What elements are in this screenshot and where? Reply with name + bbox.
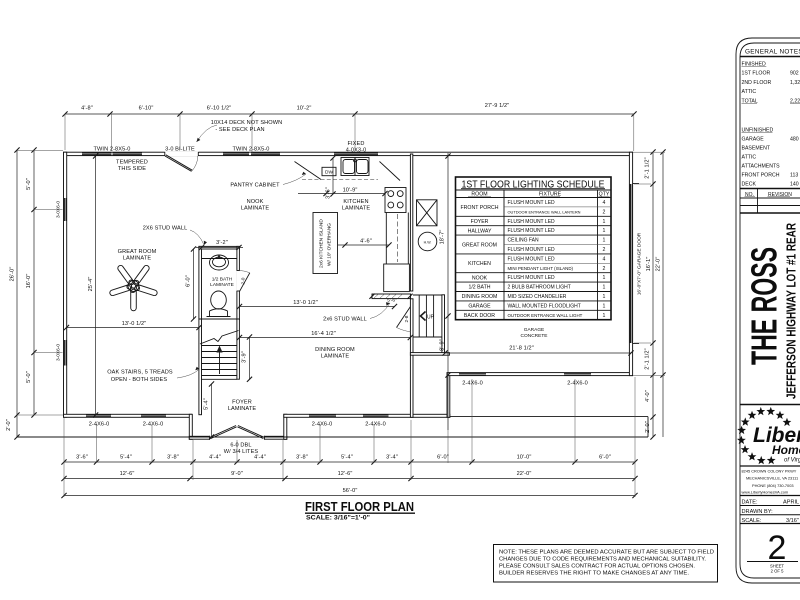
svg-text:3-0X6-0: 3-0X6-0 (56, 201, 62, 218)
svg-text:2'-0": 2'-0" (6, 419, 12, 431)
Liberty Homes logo: star ring (748, 411, 757, 419)
svg-text:2-4X6-0: 2-4X6-0 (365, 422, 386, 428)
svg-text:27'-9 1/2": 27'-9 1/2" (485, 103, 510, 109)
svg-text:22'-0": 22'-0" (656, 257, 662, 272)
svg-text:DATE:: DATE: (742, 500, 759, 506)
door: 2-8 door at basement stairs (397, 307, 411, 328)
window 2-4x6-0 great room front B (141, 414, 166, 417)
great room ceiling fan (130, 292, 137, 308)
svg-text:1: 1 (603, 294, 606, 300)
svg-text:4: 4 (603, 200, 606, 206)
svg-text:9'-0": 9'-0" (231, 471, 243, 477)
dim: kitchen 10-9 (298, 193, 385, 195)
svg-text:6'-0": 6'-0" (186, 275, 192, 287)
svg-text:BUILDER RESERVES THE RIGHT TO: BUILDER RESERVES THE RIGHT TO MAKE CHANG… (499, 571, 689, 577)
svg-text:56'-0": 56'-0" (343, 488, 358, 494)
svg-text:UP: UP (427, 314, 435, 320)
svg-text:140: 140 (790, 182, 799, 188)
svg-text:2'-1 1/2": 2'-1 1/2" (645, 348, 651, 369)
svg-text:2-8: 2-8 (404, 315, 410, 322)
svg-text:10X14 DECK NOT SHOWN: 10X14 DECK NOT SHOWN (211, 120, 283, 126)
svg-text:12'-6": 12'-6" (120, 471, 135, 477)
bottom dim row 1 (64, 461, 635, 463)
svg-text:4-0X3-0: 4-0X3-0 (346, 147, 367, 153)
dim: garage door segments vertical (652, 152, 654, 437)
step wall between dining and garage front (447, 373, 450, 417)
svg-text:5'-0": 5'-0" (26, 178, 32, 190)
svg-text:1: 1 (603, 285, 606, 291)
interior wall: basement-stair right wall (442, 295, 445, 355)
svg-text:JEFFERSON HIGHWAY LOT #1 REAR: JEFFERSON HIGHWAY LOT #1 REAR (785, 223, 799, 399)
dim: bath 6-0 vertical (193, 249, 195, 319)
svg-text:FOYER: FOYER (471, 219, 489, 225)
svg-text:3'-6": 3'-6" (326, 187, 332, 199)
window twin 2-8x5-0 second pair right unit (251, 152, 280, 155)
foyer bump-out left wall (189, 414, 192, 439)
svg-text:6'-0": 6'-0" (599, 455, 611, 461)
garage right wall (629, 152, 632, 375)
svg-text:1: 1 (603, 313, 606, 319)
svg-text:ATTACHMENTS: ATTACHMENTS (742, 164, 781, 170)
svg-text:PHONE (804) 730-7003: PHONE (804) 730-7003 (752, 483, 794, 488)
window 2-4x6-0 great room front A (86, 414, 111, 417)
svg-text:16'-1": 16'-1" (646, 257, 652, 272)
interior wall: dining right / foyer wall (410, 299, 413, 418)
svg-text:1: 1 (603, 275, 606, 281)
svg-text:CONCRETE: CONCRETE (521, 333, 548, 339)
svg-text:6-0 DBL: 6-0 DBL (230, 443, 251, 449)
upper cabinet dashed line (302, 179, 378, 181)
svg-text:HALLWAY: HALLWAY (468, 228, 492, 234)
outer wall: bottom-left front wall (64, 414, 192, 417)
kitchen sink double basin (341, 158, 369, 176)
svg-text:KITCHEN: KITCHEN (343, 199, 368, 205)
window 2-4x6-0 garage front A (459, 373, 486, 376)
dim: foyer 5-4 vertical (211, 384, 213, 437)
svg-text:H.W.: H.W. (424, 240, 432, 244)
svg-text:FLUSH MOUNT LED: FLUSH MOUNT LED (508, 219, 556, 225)
svg-text:MID SIZED CHANDELIER: MID SIZED CHANDELIER (508, 294, 567, 300)
svg-text:DRAWN BY:: DRAWN BY: (742, 509, 774, 515)
svg-text:SCALE: 3/16"=1'-0": SCALE: 3/16"=1'-0" (306, 516, 370, 522)
outer wall: top (back) wall (64, 152, 633, 155)
svg-text:1/2 BATH: 1/2 BATH (212, 277, 233, 283)
svg-text:18'-7": 18'-7" (440, 230, 446, 245)
interior wall: bath-stairs left wall (199, 246, 202, 414)
svg-text:OAK STAIRS, 5 TREADS: OAK STAIRS, 5 TREADS (107, 370, 173, 376)
door: half-bath 2-0 door leaf and arc (240, 273, 250, 292)
svg-text:5'-0": 5'-0" (26, 371, 32, 383)
dim: dining 16-4 1/2 (240, 337, 411, 339)
svg-text:2-4X6-0: 2-4X6-0 (89, 422, 110, 428)
svg-text:LAMINATE: LAMINATE (228, 406, 257, 412)
svg-text:2: 2 (603, 209, 606, 215)
svg-text:3-0X6-0: 3-0X6-0 (56, 344, 62, 361)
svg-text:113: 113 (790, 173, 798, 179)
note box (494, 545, 718, 583)
foyer bump-out right wall (284, 414, 287, 439)
svg-text:3-0 BI-LITE: 3-0 BI-LITE (165, 147, 195, 153)
svg-text:10'-0": 10'-0" (517, 455, 532, 461)
door: 3-0 bi-lite at rear wall (leaf and swing arc) (165, 152, 199, 156)
dim: garage overall 22-0 vertical (662, 152, 664, 437)
svg-text:1ST FLOOR: 1ST FLOOR (742, 71, 771, 77)
porch edge line right of dining (450, 416, 648, 418)
window fixed 4-0x3-0 over kitchen sink (334, 152, 378, 155)
svg-text:2-4X6-0: 2-4X6-0 (462, 381, 483, 387)
window 2-4x6-0 dining front B (363, 414, 389, 417)
svg-text:1,325: 1,325 (790, 80, 800, 86)
svg-text:TWIN 2-8X5-0: TWIN 2-8X5-0 (233, 147, 270, 153)
svg-text:4'-8": 4'-8" (81, 106, 93, 112)
interior wall: garage/kitchen wall (410, 154, 412, 291)
svg-text:16'-0": 16'-0" (26, 274, 32, 289)
dim: garage width 21-8 1/2 (445, 352, 631, 354)
svg-text:OUTDOOR ENTRANCE WALL LANTERN: OUTDOOR ENTRANCE WALL LANTERN (508, 209, 581, 214)
svg-text:DINING ROOM: DINING ROOM (462, 294, 498, 300)
bottom dim row 2 (64, 478, 635, 480)
svg-text:8245 CROWN COLONY PKWY: 8245 CROWN COLONY PKWY (742, 469, 797, 474)
outer wall: left wall (64, 152, 67, 417)
svg-text:FRONT PORCH: FRONT PORCH (742, 173, 780, 179)
svg-text:2 BULB BATHROOM LIGHT: 2 BULB BATHROOM LIGHT (508, 285, 571, 291)
svg-text:6'-10 1/2": 6'-10 1/2" (207, 106, 232, 112)
oak stairs treads (202, 345, 237, 347)
dim: kitchen 3-6 vertical (332, 158, 334, 194)
svg-text:2-4X6-0: 2-4X6-0 (567, 381, 588, 387)
svg-text:OUTDOOR ENTRANCE WALL LIGHT: OUTDOOR ENTRANCE WALL LIGHT (508, 313, 583, 318)
porch right end vertical (647, 417, 649, 437)
svg-text:2'-0": 2'-0" (645, 421, 651, 433)
svg-text:3'-8": 3'-8" (167, 455, 179, 461)
svg-text:NOTE: THESE PLANS ARE DEEMED A: NOTE: THESE PLANS ARE DEEMED ACCURATE BU… (499, 550, 714, 556)
svg-text:NOOK: NOOK (247, 199, 264, 205)
svg-text:PLEASE CONSULT SALES CONTRACT: PLEASE CONSULT SALES CONTRACT FOR ACTUAL… (499, 564, 695, 570)
svg-text:BASEMENT: BASEMENT (742, 146, 771, 152)
interior wall: half-bath right wall with door opening (237, 246, 240, 319)
svg-text:2x6 KITCHEN ISLAND: 2x6 KITCHEN ISLAND (319, 219, 325, 268)
svg-text:16'-4 1/2": 16'-4 1/2" (311, 331, 336, 337)
svg-text:FLUSH MOUNT LED: FLUSH MOUNT LED (508, 275, 556, 281)
window 3-0x6-0 left wall lower (64, 340, 67, 366)
svg-text:CHANGES DUE TO CODE REQUIREMEN: CHANGES DUE TO CODE REQUIREMENTS AND MEC… (499, 557, 706, 563)
dimension line: far left overall 26-0 (16, 150, 18, 437)
svg-text:DECK: DECK (742, 182, 757, 188)
svg-text:22'-0": 22'-0" (517, 471, 532, 477)
svg-text:- SEE DECK PLAN: - SEE DECK PLAN (215, 127, 264, 133)
svg-text:OPEN - BOTH SIDES: OPEN - BOTH SIDES (111, 377, 168, 383)
svg-text:BACK DOOR: BACK DOOR (464, 313, 495, 319)
interior wall: stair right wall (237, 319, 240, 379)
dim: bath 3-2 (196, 247, 243, 249)
kitchen counter band (385, 213, 387, 265)
title block outer rounded border (736, 38, 800, 583)
svg-text:3'-8": 3'-8" (296, 455, 308, 461)
dimension line: left wall segments (33, 150, 35, 415)
svg-text:2-4X6-0: 2-4X6-0 (312, 422, 333, 428)
dim: stairs 3-9 vertical (249, 337, 251, 379)
svg-text:2X6 STUD WALL: 2X6 STUD WALL (143, 226, 188, 232)
svg-text:5'-4": 5'-4" (120, 455, 132, 461)
svg-text:TWIN 2-8X5-0: TWIN 2-8X5-0 (94, 147, 131, 153)
svg-text:W/ 10" OVERHANG: W/ 10" OVERHANG (327, 223, 333, 266)
oak stairs break line (200, 331, 239, 345)
svg-text:3'-4": 3'-4" (386, 455, 398, 461)
bottom extension lines (63, 418, 65, 497)
dishwasher DW (322, 167, 336, 175)
svg-text:480: 480 (790, 137, 799, 143)
dimension line: great room interior 25-4 (95, 156, 97, 415)
svg-text:of Virginia: of Virginia (784, 458, 800, 464)
svg-text:GARAGE: GARAGE (742, 137, 765, 143)
interior wall: half-bath top wall (199, 246, 240, 249)
svg-text:KITCHEN: KITCHEN (468, 261, 491, 267)
svg-text:4'-4": 4'-4" (254, 455, 266, 461)
range with 4 burners (385, 188, 406, 213)
door: front entry 6-0 double doors (210, 426, 236, 438)
interior wall: hallway-garage wall at stairs bottom (410, 353, 449, 356)
kitchen island 2x6 w/ overhang (313, 213, 338, 274)
svg-text:25'-4": 25'-4" (88, 277, 94, 292)
svg-text:13'-0 1/2": 13'-0 1/2" (122, 321, 147, 327)
extension lines top (64, 114, 66, 150)
svg-text:4'-0": 4'-0" (645, 390, 651, 402)
porch/stoop front edge line across bottom (17, 436, 648, 438)
svg-text:1: 1 (603, 219, 606, 225)
svg-text:MECHANICSVILLE, VA 23111: MECHANICSVILLE, VA 23111 (746, 476, 798, 481)
svg-text:LAMINATE: LAMINATE (123, 255, 152, 261)
svg-text:4: 4 (603, 256, 606, 262)
svg-text:LAMINATE: LAMINATE (210, 282, 234, 288)
svg-text:1: 1 (603, 228, 606, 234)
svg-text:21'-8 1/2": 21'-8 1/2" (509, 346, 534, 352)
svg-text:GARAGE: GARAGE (524, 327, 545, 333)
svg-text:APRIL 2021: APRIL 2021 (783, 500, 800, 506)
svg-text:DINING ROOM: DINING ROOM (315, 347, 355, 353)
garage door jamb step top (633, 183, 639, 185)
svg-text:1: 1 (603, 303, 606, 309)
svg-text:1: 1 (603, 238, 606, 244)
window 2-4x6-0 dining front A (309, 414, 336, 417)
dining room front wall (284, 414, 450, 417)
svg-text:THIS SIDE: THIS SIDE (118, 166, 146, 172)
bottom dim row 3 overall 56-0 (64, 495, 635, 497)
svg-text:2x6 STUD WALL: 2x6 STUD WALL (323, 317, 367, 323)
svg-text:902: 902 (790, 71, 799, 77)
svg-text:6'-10": 6'-10" (139, 106, 154, 112)
stud wall stub at kitchen counter end (372, 294, 411, 299)
svg-text:10'-9": 10'-9" (343, 188, 358, 194)
revision table (740, 188, 800, 190)
svg-text:DW: DW (325, 170, 333, 176)
extension lines right (633, 151, 665, 153)
svg-text:12'-6": 12'-6" (338, 471, 353, 477)
svg-text:GREAT ROOM: GREAT ROOM (462, 242, 497, 248)
hot water heater (418, 232, 437, 251)
foyer front wall with door opening (189, 436, 286, 439)
svg-text:TEMPERED: TEMPERED (116, 160, 148, 166)
svg-text:FIRST FLOOR PLAN: FIRST FLOOR PLAN (305, 500, 414, 514)
svg-text:FOYER: FOYER (232, 400, 252, 406)
svg-text:5'-6": 5'-6" (387, 298, 397, 304)
svg-text:FRONT PORCH: FRONT PORCH (461, 205, 499, 211)
svg-text:3'-9": 3'-9" (242, 351, 248, 363)
basement stairs UP label with arrow (421, 312, 426, 321)
half-bath toilet (211, 291, 227, 309)
svg-text:PANTRY CABINET: PANTRY CABINET (230, 183, 280, 189)
svg-text:Homes: Homes (772, 443, 800, 457)
svg-text:ATTIC: ATTIC (742, 155, 757, 161)
svg-text:5'-4": 5'-4" (341, 455, 353, 461)
svg-text:2: 2 (603, 247, 606, 253)
svg-text:2'-1 1/2": 2'-1 1/2" (645, 157, 651, 178)
extension lines left (17, 150, 63, 152)
svg-text:8'-9": 8'-9" (440, 339, 446, 351)
svg-text:MINI PENDANT LIGHT (ISLAND): MINI PENDANT LIGHT (ISLAND) (508, 266, 574, 271)
svg-text:SCALE:: SCALE: (742, 518, 762, 524)
schedule column lines (503, 190, 505, 320)
svg-text:2-0: 2-0 (241, 277, 247, 284)
svg-text:2: 2 (603, 266, 606, 272)
svg-text:LAMINATE: LAMINATE (342, 205, 371, 211)
svg-text:4'-6": 4'-6" (360, 239, 372, 245)
dimension line: rear wall (top) (65, 113, 634, 115)
window twin 2-8x5-0 (left unit, rear wall) (82, 152, 112, 155)
svg-text:3/16": 3/16" (786, 518, 799, 524)
lighting schedule table frame (456, 177, 612, 320)
svg-text:THE ROSS: THE ROSS (744, 247, 785, 365)
dim: hall 13-0 1/2 (240, 306, 395, 308)
svg-text:16'-0"X7'-0" GARAGE DOOR: 16'-0"X7'-0" GARAGE DOOR (637, 232, 643, 295)
svg-text:5'-4": 5'-4" (204, 398, 210, 410)
title block inner rounded border (740, 43, 800, 578)
svg-text:10'-2": 10'-2" (297, 106, 312, 112)
oak stairs UP arrow (219, 350, 221, 374)
svg-text:26'-0": 26'-0" (10, 267, 16, 282)
svg-text:3'-2": 3'-2" (216, 240, 228, 246)
svg-text:WALL MOUNTED FLOODLIGHT: WALL MOUNTED FLOODLIGHT (508, 303, 581, 309)
svg-text:13'-0 1/2": 13'-0 1/2" (293, 300, 318, 306)
svg-text:www.LibertyHomesVA.com: www.LibertyHomesVA.com (742, 490, 789, 495)
dim: great room 13-0 1/2 (67, 327, 200, 329)
svg-text:6'-0": 6'-0" (437, 455, 449, 461)
half-bath pedestal sink (202, 258, 237, 260)
basement stairs treads (418, 295, 420, 337)
svg-text:NOOK: NOOK (472, 275, 488, 281)
dim: garage interior 18-7 / 8-9 vertical (447, 153, 449, 430)
svg-text:FLUSH MOUNT LED: FLUSH MOUNT LED (508, 228, 556, 234)
dim: island 4-6 (338, 244, 390, 246)
garage door jamb step bottom (633, 343, 639, 345)
svg-text:FLUSH MOUNT LED: FLUSH MOUNT LED (508, 200, 556, 206)
window 3-0x6-0 left wall upper (64, 198, 67, 221)
pantry corner cabinet diagonal (295, 162, 322, 180)
svg-text:GENERAL NOTES: GENERAL NOTES (745, 49, 800, 56)
svg-text:ATTIC: ATTIC (742, 89, 757, 95)
window 2-4x6-0 garage front B (564, 373, 591, 376)
window twin 2-8x5-0 second pair left unit (223, 152, 249, 155)
kitchen corner cabinet diagonal right (380, 162, 401, 181)
svg-text:FLUSH MOUNT LED: FLUSH MOUNT LED (508, 256, 556, 262)
svg-text:W/ 3/4 LITES: W/ 3/4 LITES (224, 449, 259, 455)
svg-text:2 OF 5: 2 OF 5 (771, 569, 784, 574)
svg-text:4'-4": 4'-4" (209, 455, 221, 461)
window twin 2-8x5-0 (right unit, rear wall) (113, 152, 143, 155)
interior line: bath bottom / stairs top (199, 318, 240, 320)
svg-text:1/2 BATH: 1/2 BATH (468, 285, 490, 291)
svg-text:LAMINATE: LAMINATE (241, 205, 270, 211)
svg-text:CEILING FAN: CEILING FAN (508, 238, 540, 244)
garage front wall (447, 373, 633, 376)
svg-text:3'-6": 3'-6" (76, 455, 88, 461)
svg-text:GREAT ROOM: GREAT ROOM (118, 249, 157, 255)
svg-text:FLUSH MOUNT LED: FLUSH MOUNT LED (508, 247, 556, 253)
svg-text:FIXED: FIXED (348, 141, 365, 147)
svg-text:LAMINATE: LAMINATE (321, 353, 350, 359)
svg-text:2ND FLOOR: 2ND FLOOR (742, 80, 772, 86)
garage door 16-0x7-0 on right wall (630, 184, 633, 343)
svg-text:2-4X6-0: 2-4X6-0 (143, 422, 164, 428)
svg-text:GARAGE: GARAGE (468, 304, 491, 310)
furnace unit (X box) (417, 200, 438, 226)
